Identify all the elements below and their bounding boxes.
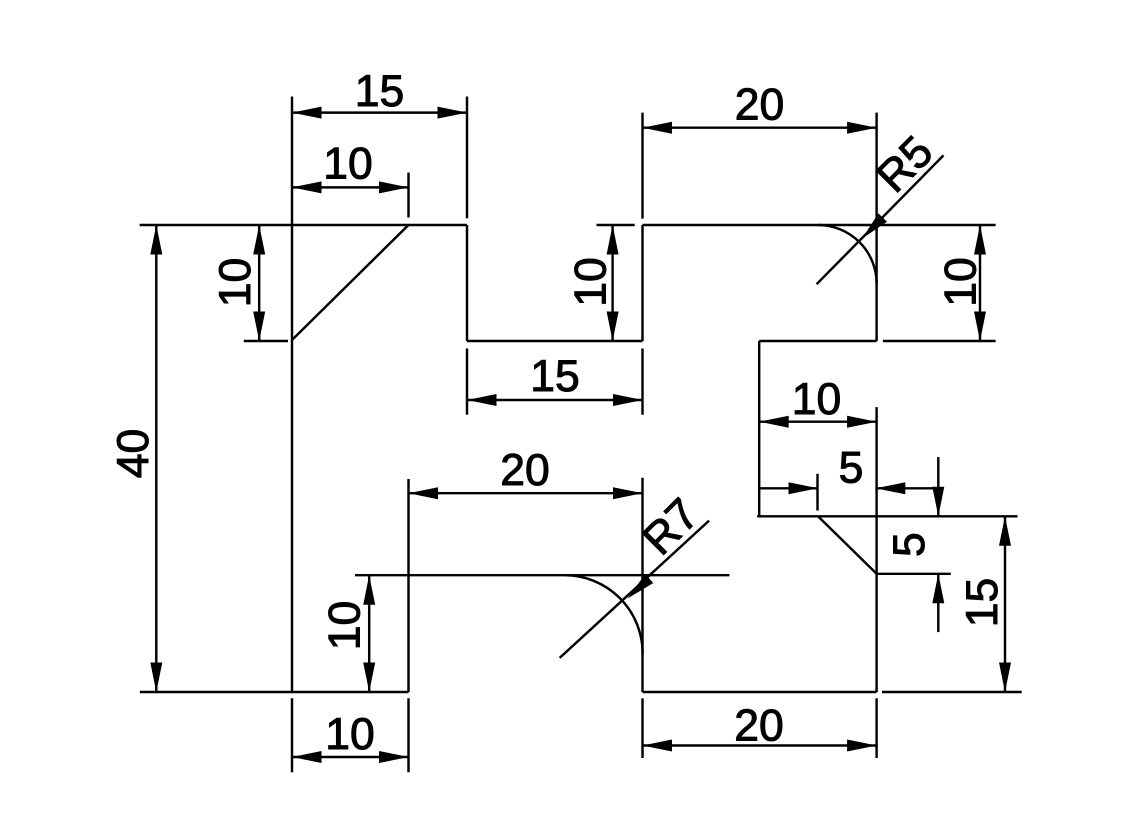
svg-text:15: 15: [355, 67, 405, 116]
svg-text:10: 10: [792, 375, 842, 424]
svg-text:10: 10: [211, 258, 260, 308]
svg-text:5: 5: [839, 444, 864, 493]
svg-text:40: 40: [109, 429, 158, 479]
svg-text:20: 20: [500, 446, 550, 495]
svg-text:15: 15: [958, 578, 1007, 628]
svg-text:10: 10: [321, 601, 370, 651]
svg-text:20: 20: [734, 702, 784, 751]
svg-text:5: 5: [885, 532, 934, 557]
svg-text:15: 15: [530, 352, 580, 401]
svg-text:20: 20: [735, 81, 785, 130]
svg-text:10: 10: [567, 257, 616, 307]
svg-text:10: 10: [325, 710, 375, 759]
svg-text:R7: R7: [634, 490, 709, 565]
svg-text:10: 10: [323, 140, 373, 189]
svg-text:10: 10: [936, 257, 985, 307]
svg-text:R5: R5: [868, 127, 943, 202]
